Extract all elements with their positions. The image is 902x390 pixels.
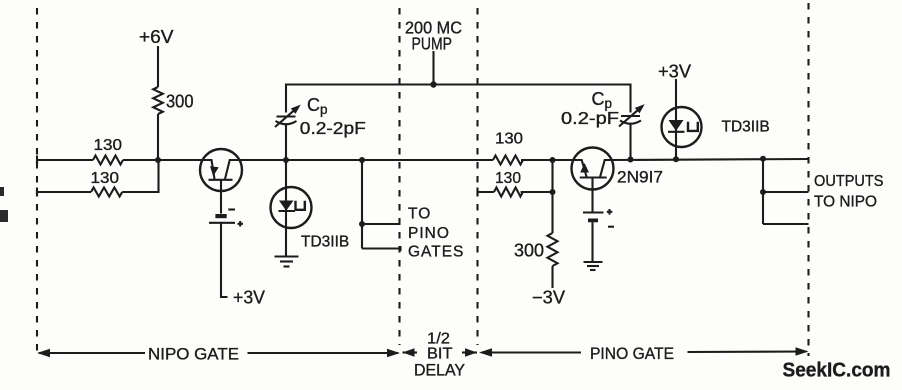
svg-text:300: 300 — [166, 92, 194, 112]
tunnel diode TD2 TD311B (circle, triangle, cathode U) — [662, 79, 702, 160]
battery B2 (emitter bias, thin positive top plate) — [583, 209, 614, 227]
tunnel diode TD1 TD311B (circle, triangle, cathode U) — [271, 160, 312, 256]
wire: junction down to R6 — [551, 160, 553, 233]
capacitor C2 Cp 0.2-pF (variable, plates and trim arrow) — [619, 101, 647, 126]
svg-text:PUMP: PUMP — [412, 34, 453, 54]
svg-text:TO NIPO: TO NIPO — [814, 194, 877, 211]
svg-text:TD3IIB: TD3IIB — [722, 119, 770, 136]
svg-text:PINO: PINO — [408, 225, 450, 242]
svg-text:+6V: +6V — [139, 27, 174, 47]
node: junction C2 on bus — [628, 157, 634, 163]
dashed boundary line: 1/2 bit delay right edge — [476, 8, 478, 345]
ground: TD1 cathode — [275, 257, 299, 267]
resistor R5 130 (lower, PINO gate input) — [494, 188, 523, 197]
svg-text:GATES: GATES — [408, 244, 464, 261]
svg-text:0.2-2pF: 0.2-2pF — [300, 118, 366, 138]
wire: bus C1 junction to PINO tap — [286, 159, 362, 161]
dashed boundary line: PINO gate right edge — [807, 3, 809, 356]
node: PINO tap junction on bus — [359, 157, 365, 163]
wire: bus PINO tap to R4 — [362, 159, 493, 161]
wire: +6V lead to R3 — [157, 46, 159, 87]
dimension arrow: 1/2 bit delay span (inner arrows) — [403, 348, 478, 356]
dimension arrow: PINO GATE span — [479, 347, 809, 357]
svg-text:SeekIC.com: SeekIC.com — [783, 360, 891, 382]
wire: lower 130 stub with tick — [478, 188, 495, 197]
resistor R1 130 (top left input) — [93, 156, 123, 165]
wire: bus junction to transistor Q1 — [158, 159, 212, 161]
svg-text:130: 130 — [94, 137, 123, 154]
node: junction TD2 on bus — [673, 156, 679, 162]
wire: bus Q1 to C1/TD1 junction — [242, 159, 286, 161]
svg-text:DELAY: DELAY — [414, 362, 465, 380]
node: junction on PINO tap — [359, 221, 365, 227]
dimension arrow: NIPO GATE span — [37, 349, 400, 358]
svg-text:TO: TO — [408, 206, 431, 223]
wire: junction to transistor Q2 — [553, 159, 582, 161]
svg-text:TD3IIB: TD3IIB — [301, 234, 349, 251]
node: pump junction on rail — [430, 81, 436, 87]
wire: R6 to -3V terminal — [551, 266, 553, 288]
svg-text:−3V: −3V — [532, 288, 565, 308]
wire: B1 to +3V terminal hook — [221, 223, 228, 297]
wire: output taps to right boundary — [763, 159, 809, 224]
wire: C2 bottom to bus — [629, 125, 631, 161]
resistor R3 300 (collector load) — [153, 87, 163, 114]
wire: R4 to junction — [521, 159, 553, 161]
svg-text:0.2-pF: 0.2-pF — [561, 108, 619, 128]
wire: R2 riser to bus junction — [122, 160, 158, 192]
resistor R4 130 (series, PINO gate input) — [493, 156, 523, 165]
node: bus junction above R6 — [550, 157, 556, 163]
svg-text:+3V: +3V — [233, 288, 265, 308]
resistor R2 130 (bottom left input) — [91, 188, 122, 197]
node: junction on output tap — [760, 189, 766, 195]
wire: B2 to ground — [591, 222, 593, 261]
dashed boundary line: NIPO gate left edge — [36, 8, 38, 355]
ground: B2 negative — [584, 262, 603, 270]
wire: R5 to junction — [521, 191, 553, 193]
capacitor C1 Cp 0.2-2pF (variable, plates and trim arrow) — [275, 102, 303, 127]
battery B1 (+3V bias, thick negative top plate) — [209, 210, 243, 227]
dashed boundary line: 1/2 bit delay left edge — [398, 8, 400, 345]
wire: C1 bottom to bus — [285, 125, 287, 160]
svg-text:+3V: +3V — [658, 62, 691, 82]
wire: pump rail from C1 top to C2 top — [286, 85, 631, 113]
wire: pump feed stub — [432, 51, 434, 85]
svg-text:NIPO GATE: NIPO GATE — [148, 345, 239, 364]
svg-text:2N9I7: 2N9I7 — [617, 168, 663, 187]
node: junction C1/TD1 on bus — [283, 157, 289, 163]
wire: left input stub bottom with tick — [37, 188, 91, 197]
wire: R3 to bus junction — [157, 114, 159, 160]
svg-text:130: 130 — [91, 170, 120, 187]
node: junction R5/R6 — [550, 189, 556, 195]
wire: tap to PINO gates (two stubs) — [362, 160, 401, 251]
svg-text:300: 300 — [514, 240, 544, 261]
wire: left input stub top with tick — [37, 156, 93, 165]
svg-text:OUTPUTS: OUTPUTS — [814, 173, 884, 190]
svg-text:130: 130 — [495, 170, 521, 187]
resistor R6 300 (bias to -3V) — [548, 233, 558, 266]
node: output tap junction on bus — [760, 156, 766, 162]
wire: R1 to bus junction — [123, 159, 158, 161]
svg-text:BIT: BIT — [427, 346, 453, 363]
transistor Q2 2N917 (NPN, PINO gate) — [572, 148, 614, 213]
node: junction R1/R2/R3 on bus — [155, 157, 161, 163]
svg-text:PINO GATE: PINO GATE — [590, 344, 674, 363]
svg-text:130: 130 — [495, 131, 523, 148]
wire: bus Q2 to output — [614, 159, 809, 160]
transistor Q1 (PNP, NIPO gate) — [200, 149, 242, 214]
